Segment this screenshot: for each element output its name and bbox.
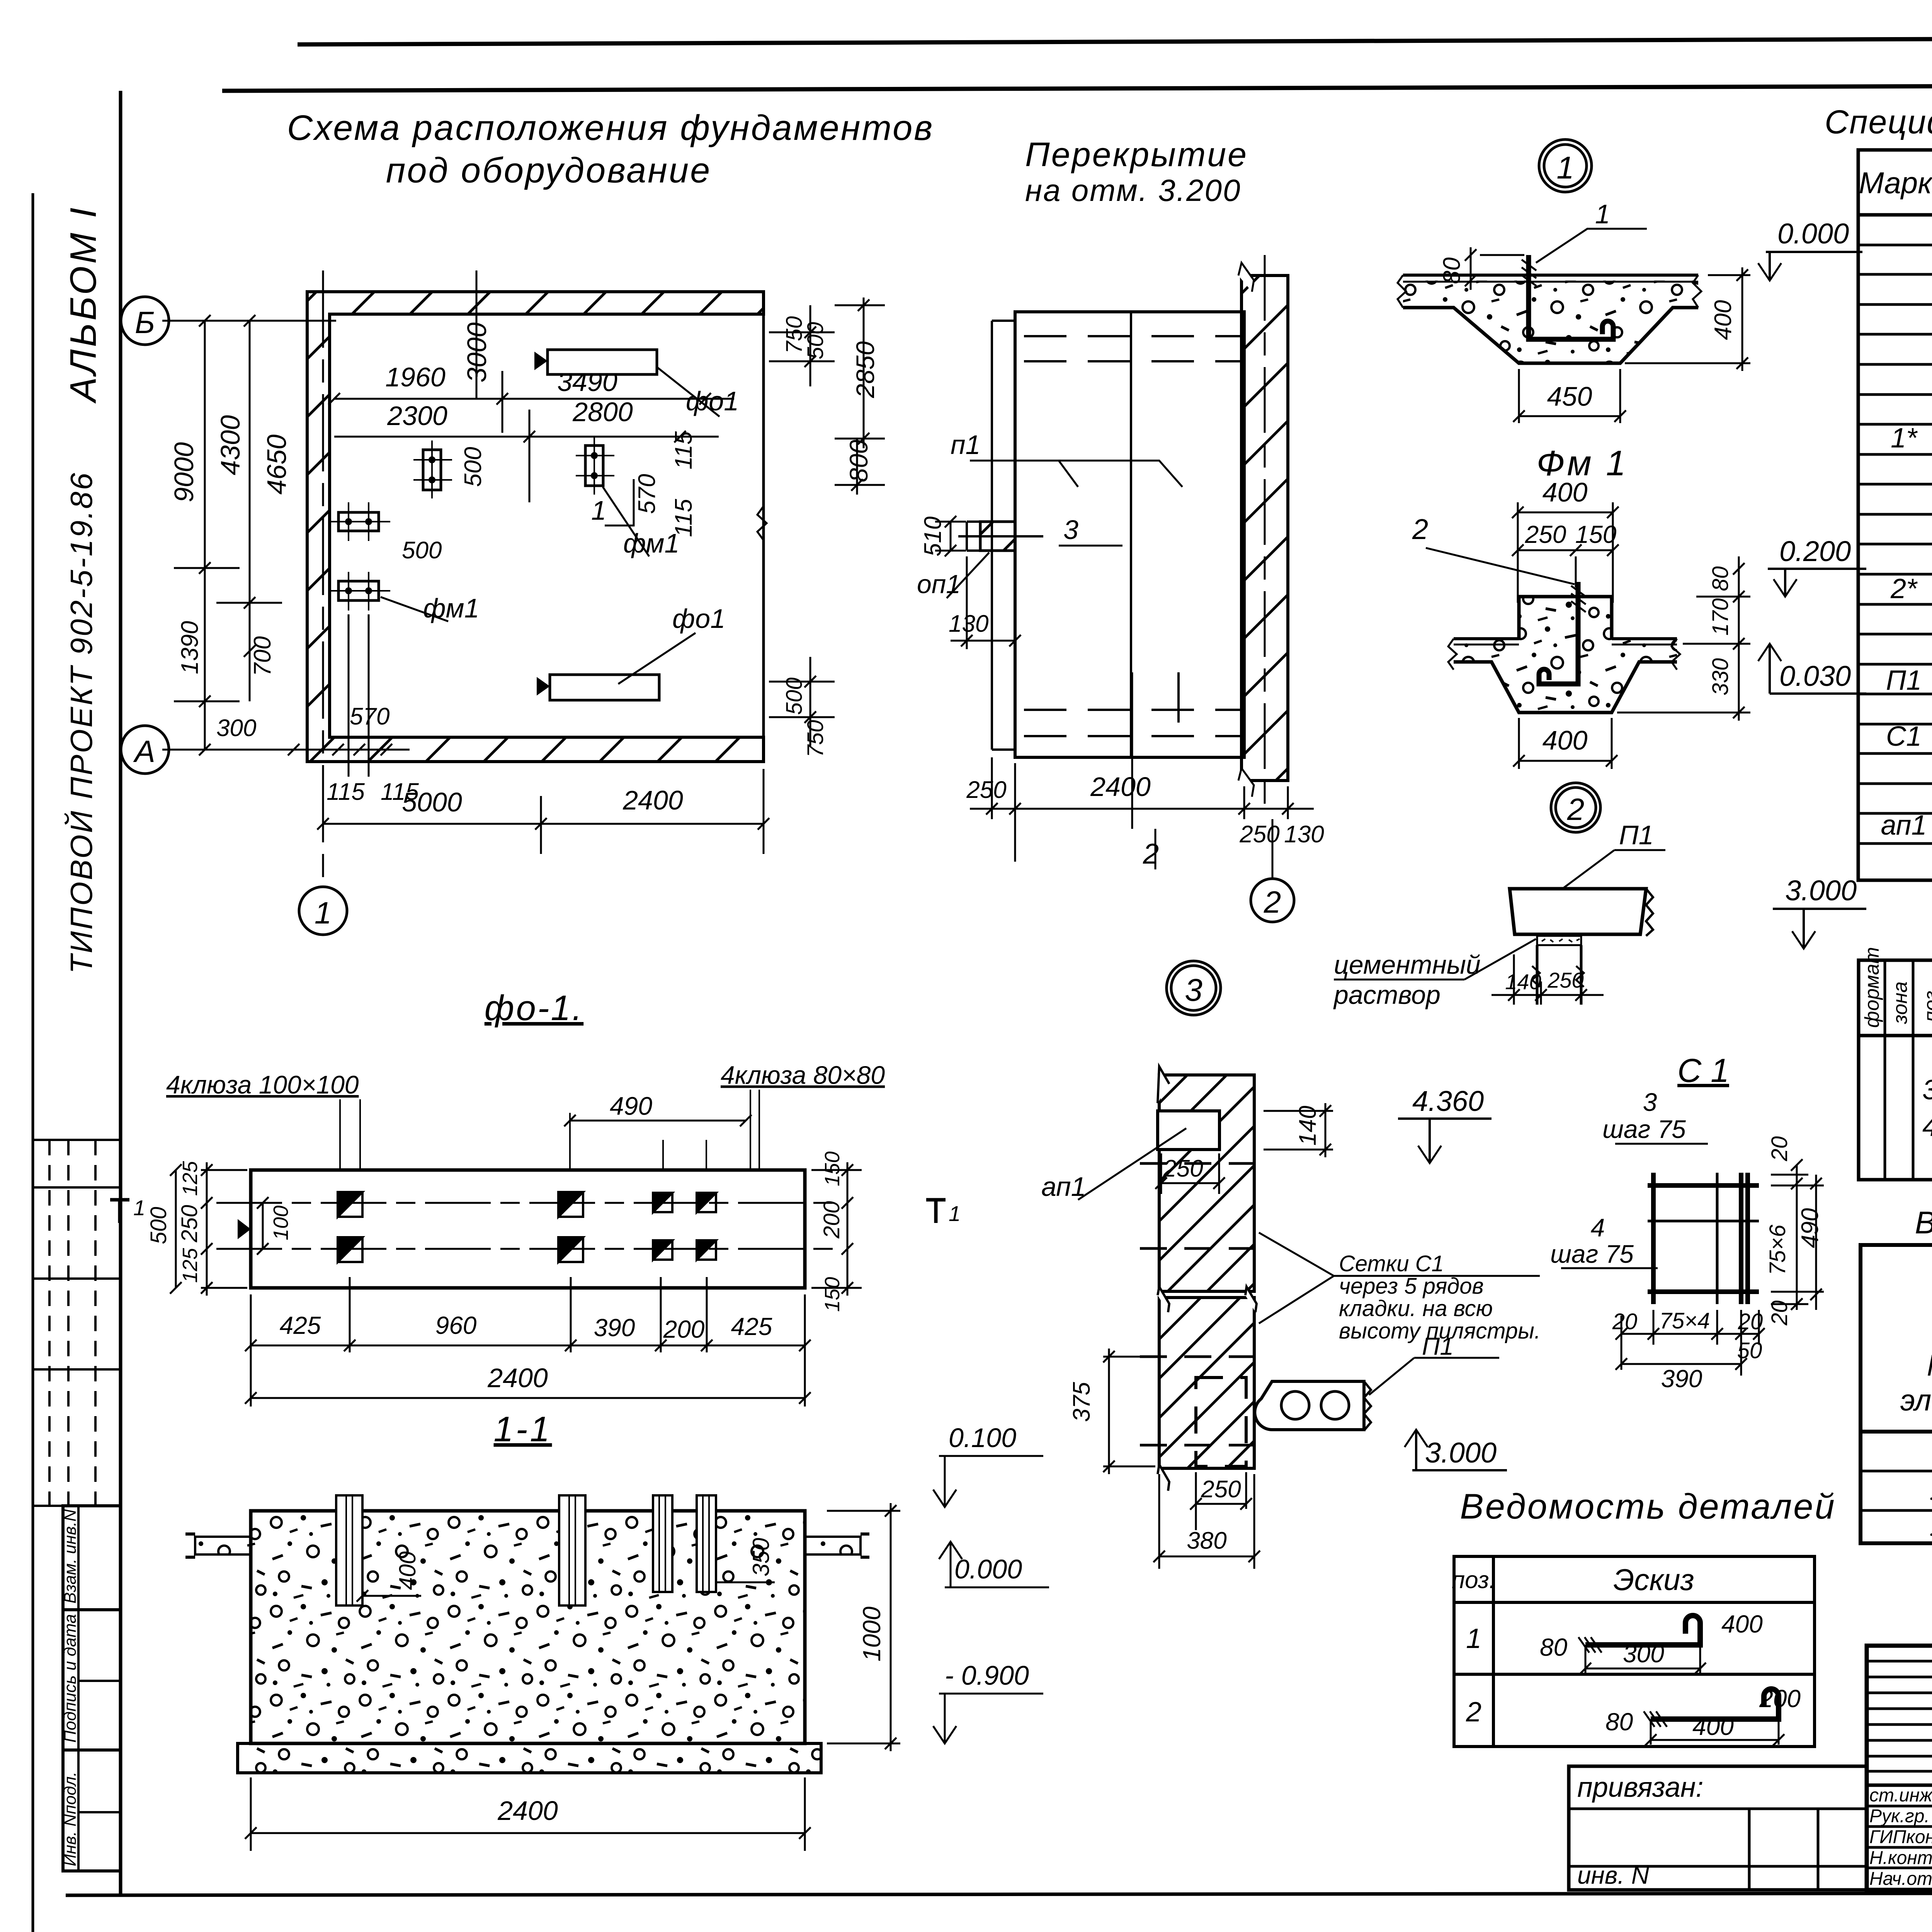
- svg-text:250: 250: [1239, 821, 1279, 848]
- svg-text:Б: Б: [135, 305, 155, 340]
- svg-text:500: 500: [803, 322, 828, 359]
- svg-text:3: 3: [1643, 1088, 1657, 1116]
- svg-text:200: 200: [1759, 1685, 1801, 1713]
- svg-text:9000: 9000: [169, 442, 199, 502]
- svg-text:960: 960: [435, 1311, 477, 1339]
- svg-text:570: 570: [634, 474, 660, 514]
- svg-text:2*: 2*: [1890, 573, 1918, 604]
- svg-text:425: 425: [280, 1311, 321, 1339]
- svg-text:300: 300: [216, 715, 256, 742]
- svg-text:4: 4: [1591, 1213, 1605, 1242]
- svg-text:20: 20: [1767, 1300, 1792, 1326]
- svg-text:5000: 5000: [402, 787, 462, 817]
- svg-text:400: 400: [1692, 1713, 1734, 1740]
- svg-text:3: 3: [1063, 515, 1078, 545]
- svg-text:оп1: оп1: [917, 570, 961, 599]
- svg-text:2400: 2400: [497, 1796, 558, 1826]
- svg-text:ст.инж: ст.инж: [1869, 1785, 1932, 1806]
- svg-text:П1: П1: [1422, 1332, 1454, 1360]
- svg-text:3.000: 3.000: [1425, 1437, 1497, 1469]
- svg-text:400: 400: [1710, 300, 1736, 340]
- svg-text:А: А: [133, 734, 155, 769]
- svg-text:80: 80: [1605, 1708, 1633, 1736]
- svg-text:150: 150: [821, 1151, 844, 1186]
- svg-text:490: 490: [610, 1092, 652, 1120]
- svg-text:1000: 1000: [858, 1606, 886, 1662]
- svg-text:250: 250: [1525, 520, 1566, 548]
- svg-text:Ведомость деталей: Ведомость деталей: [1460, 1487, 1836, 1526]
- svg-text:800: 800: [844, 440, 873, 482]
- svg-text:115: 115: [670, 431, 697, 469]
- svg-text:П1: П1: [1619, 820, 1654, 850]
- svg-text:80: 80: [1439, 257, 1465, 284]
- svg-text:Эскиз: Эскиз: [1613, 1563, 1694, 1597]
- svg-text:0.000: 0.000: [954, 1554, 1022, 1584]
- svg-text:Нач.отд.: Нач.отд.: [1869, 1869, 1932, 1889]
- svg-text:П1: П1: [1886, 665, 1922, 696]
- svg-text:1: 1: [1466, 1623, 1481, 1654]
- svg-text:1: 1: [315, 896, 332, 930]
- svg-text:3: 3: [1185, 973, 1202, 1008]
- svg-text:500: 500: [402, 537, 442, 564]
- svg-text:1: 1: [133, 1196, 145, 1220]
- svg-text:700: 700: [249, 636, 276, 676]
- svg-text:Марка: Марка: [1927, 1348, 1932, 1382]
- svg-text:ап1: ап1: [1041, 1172, 1086, 1202]
- svg-text:0.000: 0.000: [1777, 218, 1849, 250]
- svg-text:570: 570: [350, 703, 389, 730]
- svg-text:Схема расположения фундамент: Схема расположения фундаментов: [287, 108, 934, 148]
- svg-text:375: 375: [1068, 1382, 1095, 1422]
- svg-text:115: 115: [327, 779, 365, 805]
- svg-text:Перекрытие: Перекрытие: [1025, 135, 1248, 173]
- svg-text:170: 170: [1708, 598, 1733, 636]
- svg-text:фо-1.: фо-1.: [485, 988, 583, 1028]
- svg-text:0.030: 0.030: [1779, 660, 1851, 692]
- svg-text:400: 400: [1543, 725, 1588, 755]
- svg-text:зона: зона: [1889, 981, 1912, 1024]
- svg-text:Подпись и дата: Подпись и дата: [61, 1614, 80, 1743]
- svg-text:элемента: элемента: [1900, 1383, 1932, 1417]
- svg-text:2300: 2300: [387, 401, 447, 431]
- svg-text:3.000: 3.000: [1785, 874, 1857, 906]
- svg-text:кладки. на всю: кладки. на всю: [1339, 1296, 1493, 1321]
- svg-text:75×6: 75×6: [1765, 1225, 1790, 1275]
- svg-text:130: 130: [1284, 821, 1324, 848]
- svg-text:1390: 1390: [177, 621, 203, 674]
- svg-text:2400: 2400: [1090, 772, 1151, 802]
- svg-text:п1: п1: [951, 430, 980, 460]
- svg-text:250: 250: [1547, 968, 1583, 992]
- svg-text:Рук.гр.: Рук.гр.: [1869, 1806, 1930, 1827]
- svg-text:1960: 1960: [385, 362, 446, 392]
- svg-text:140: 140: [1505, 969, 1541, 994]
- svg-text:0.200: 0.200: [1779, 535, 1851, 567]
- svg-text:инв. N: инв. N: [1577, 1861, 1650, 1889]
- svg-text:поз.: поз.: [1920, 985, 1932, 1022]
- svg-text:500: 500: [146, 1207, 171, 1244]
- svg-text:поз.: поз.: [1452, 1567, 1496, 1594]
- svg-text:425: 425: [731, 1313, 772, 1340]
- svg-text:1: 1: [1556, 150, 1574, 185]
- svg-text:4клюза 80×80: 4клюза 80×80: [721, 1061, 885, 1089]
- svg-text:на отм. 3.200: на отм. 3.200: [1025, 173, 1241, 207]
- svg-text:4300: 4300: [215, 415, 245, 475]
- svg-text:150: 150: [821, 1277, 844, 1312]
- svg-text:2850: 2850: [851, 341, 879, 398]
- svg-text:4.360: 4.360: [1412, 1085, 1484, 1117]
- svg-text:Марка: Марка: [1859, 166, 1932, 200]
- svg-text:400: 400: [395, 1551, 420, 1590]
- svg-text:2: 2: [1567, 792, 1585, 827]
- svg-text:80: 80: [1540, 1633, 1568, 1661]
- svg-text:3000: 3000: [462, 322, 492, 383]
- svg-text:20: 20: [1612, 1309, 1638, 1334]
- svg-text:4: 4: [1922, 1111, 1932, 1142]
- svg-text:Спецификация к схеме располо: Спецификация к схеме расположения фундам…: [1825, 104, 1932, 141]
- svg-text:500: 500: [782, 677, 807, 715]
- svg-text:Сетки С1: Сетки С1: [1339, 1251, 1444, 1276]
- svg-text:50: 50: [1737, 1338, 1762, 1363]
- svg-text:1: 1: [1595, 199, 1610, 229]
- svg-text:750: 750: [803, 720, 828, 757]
- svg-text:125: 125: [179, 1248, 202, 1283]
- svg-text:1*: 1*: [1891, 423, 1918, 454]
- svg-text:20: 20: [1738, 1309, 1763, 1334]
- svg-text:АЛЬБОМ I: АЛЬБОМ I: [63, 205, 104, 404]
- svg-text:390: 390: [594, 1314, 635, 1342]
- svg-text:350: 350: [748, 1538, 774, 1577]
- svg-text:2: 2: [1264, 885, 1281, 919]
- svg-text:1: 1: [949, 1201, 961, 1226]
- svg-text:ап1: ап1: [1881, 810, 1927, 841]
- svg-text:через 5 рядов: через 5 рядов: [1339, 1274, 1484, 1299]
- svg-text:2: 2: [1412, 513, 1428, 545]
- svg-text:450: 450: [1547, 381, 1592, 412]
- svg-text:200: 200: [663, 1315, 705, 1343]
- svg-text:шаг 75: шаг 75: [1602, 1115, 1686, 1143]
- svg-text:125: 125: [179, 1161, 202, 1196]
- svg-text:С 1: С 1: [1677, 1052, 1729, 1089]
- svg-text:под оборудование: под оборудование: [386, 151, 712, 190]
- svg-text:шаг 75: шаг 75: [1550, 1240, 1634, 1268]
- svg-text:фм1: фм1: [423, 593, 479, 623]
- svg-text:Узел 3: Узел 3: [1930, 1511, 1932, 1542]
- svg-text:390: 390: [1661, 1365, 1702, 1393]
- svg-text:ГИПконс: ГИПконс: [1869, 1827, 1932, 1847]
- svg-text:115: 115: [670, 499, 697, 537]
- svg-text:80: 80: [1708, 566, 1733, 591]
- svg-text:Узел 1: Узел 1: [1930, 1475, 1932, 1506]
- svg-text:400: 400: [1721, 1610, 1763, 1638]
- svg-text:100: 100: [269, 1206, 293, 1240]
- svg-text:2: 2: [1466, 1697, 1481, 1728]
- svg-text:ТИПОВОЙ ПРОЕКТ 902-5-19.86: ТИПОВОЙ ПРОЕКТ 902-5-19.86: [64, 471, 99, 974]
- svg-text:250: 250: [1163, 1155, 1203, 1182]
- svg-text:490: 490: [1797, 1208, 1823, 1248]
- svg-text:1: 1: [591, 495, 606, 526]
- svg-text:привязан:: привязан:: [1577, 1772, 1704, 1803]
- svg-text:4650: 4650: [262, 434, 292, 495]
- svg-text:1-1: 1-1: [494, 1410, 552, 1449]
- svg-text:2: 2: [1143, 838, 1159, 870]
- svg-text:2800: 2800: [572, 397, 633, 427]
- svg-text:2400: 2400: [622, 785, 683, 815]
- svg-text:250: 250: [966, 777, 1006, 803]
- svg-text:330: 330: [1708, 658, 1733, 696]
- svg-text:0.100: 0.100: [949, 1423, 1016, 1453]
- svg-text:раствор: раствор: [1333, 980, 1440, 1010]
- svg-text:130: 130: [949, 611, 988, 637]
- svg-text:фо1: фо1: [672, 604, 725, 634]
- svg-text:Н.контр.: Н.контр.: [1869, 1848, 1932, 1868]
- svg-text:С1: С1: [1886, 721, 1922, 752]
- svg-text:250: 250: [1201, 1476, 1241, 1503]
- svg-text:Взам. инв.N: Взам. инв.N: [61, 1509, 80, 1604]
- svg-text:Инв. Nподл.: Инв. Nподл.: [61, 1772, 80, 1866]
- svg-text:250: 250: [177, 1205, 202, 1243]
- svg-text:380: 380: [1187, 1527, 1226, 1554]
- svg-text:400: 400: [1543, 477, 1588, 507]
- svg-text:150: 150: [1575, 520, 1617, 548]
- svg-text:- 0.900: - 0.900: [945, 1660, 1029, 1690]
- svg-text:формат: формат: [1861, 947, 1883, 1028]
- svg-text:500: 500: [460, 447, 486, 487]
- svg-text:200: 200: [819, 1201, 844, 1239]
- svg-text:2400: 2400: [487, 1363, 548, 1393]
- svg-text:3: 3: [1922, 1075, 1932, 1105]
- svg-text:300: 300: [1623, 1640, 1664, 1668]
- svg-text:4клюза 100×100: 4клюза 100×100: [166, 1070, 359, 1099]
- svg-text:Ведомость расхода стали на эле: Ведомость расхода стали на элемент, кг.: [1915, 1205, 1932, 1240]
- svg-text:цементный: цементный: [1334, 950, 1481, 980]
- svg-text:75×4: 75×4: [1660, 1308, 1710, 1333]
- svg-text:20: 20: [1767, 1136, 1792, 1162]
